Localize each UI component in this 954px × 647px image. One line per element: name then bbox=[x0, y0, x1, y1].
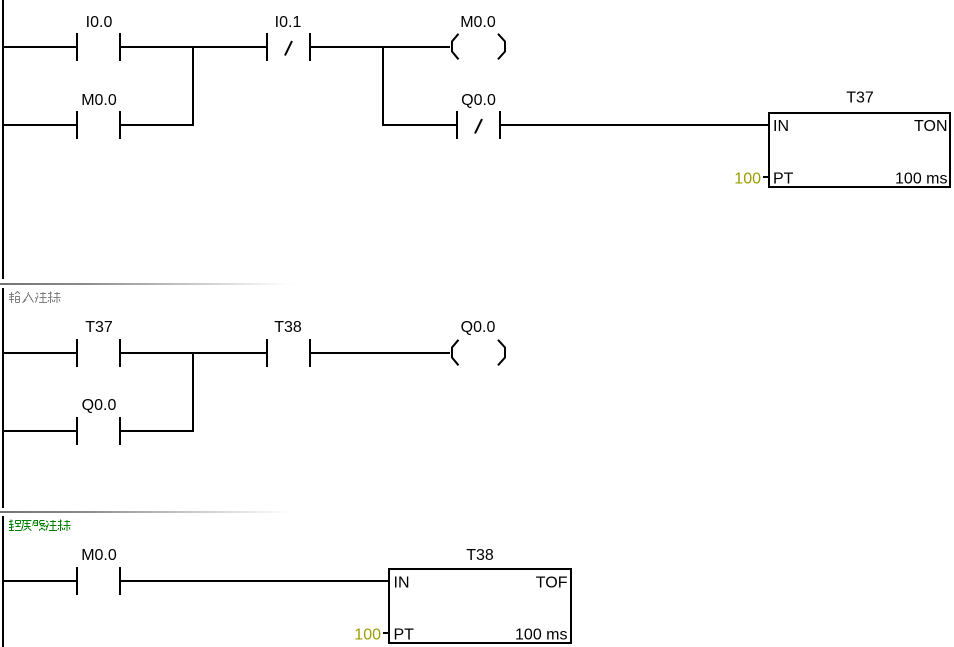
network separator 2 bbox=[0, 511, 295, 513]
wire M0.0 to timer T38 bbox=[121, 580, 389, 582]
wire Q0.0 hold to junction bbox=[121, 430, 194, 432]
svg-text:M0.0: M0.0 bbox=[81, 547, 117, 564]
svg-text:100 ms: 100 ms bbox=[515, 627, 567, 644]
junction branch to Q0.0 row bbox=[382, 46, 384, 126]
wire I0.0 to I0.1 bbox=[121, 46, 266, 48]
timer box T38 TOF bbox=[389, 569, 571, 643]
svg-text:TOF: TOF bbox=[536, 575, 568, 592]
contact Q0.0 hold bbox=[76, 417, 121, 445]
svg-text:IN: IN bbox=[394, 575, 410, 592]
svg-text:IN: IN bbox=[773, 118, 789, 135]
contact I0.1 (NC) bbox=[266, 33, 311, 61]
contact Q0.0 (NC) bbox=[456, 111, 501, 139]
wire I0.1 to coil M0.0 bbox=[311, 46, 450, 48]
svg-text:PT: PT bbox=[773, 171, 794, 188]
svg-text:T38: T38 bbox=[274, 319, 302, 336]
wire T38 to coil Q0.0 bbox=[311, 352, 450, 354]
contact M0.0 bbox=[76, 111, 121, 139]
contact T38 bbox=[266, 339, 311, 367]
svg-text:100: 100 bbox=[354, 627, 381, 644]
coil Q0.0 bbox=[452, 340, 505, 366]
svg-text:T38: T38 bbox=[466, 547, 494, 564]
svg-text:I0.1: I0.1 bbox=[275, 14, 302, 31]
wire junction to Q0.0 contact bbox=[382, 124, 456, 126]
left rail network 2 bbox=[2, 288, 4, 508]
wire rung1 rail to I0.0 bbox=[4, 46, 76, 48]
svg-text:Q0.0: Q0.0 bbox=[461, 319, 496, 336]
svg-text:I0.0: I0.0 bbox=[86, 14, 113, 31]
left rail network 3 bbox=[2, 516, 4, 647]
svg-text:TON: TON bbox=[914, 118, 947, 135]
tick PT input bbox=[763, 176, 769, 178]
wire rung2b rail to Q0.0 contact bbox=[4, 430, 76, 432]
coil M0.0 bbox=[452, 34, 505, 60]
svg-text:M0.0: M0.0 bbox=[460, 14, 496, 31]
contact M0.0 net3 bbox=[76, 567, 121, 595]
left rail network 1 bbox=[2, 0, 4, 279]
tick PT input T38 bbox=[383, 632, 389, 634]
timer box T37 TON bbox=[769, 113, 950, 187]
wire rung1b rail to M0.0 contact bbox=[4, 124, 76, 126]
network separator 1 bbox=[0, 283, 295, 285]
wire Q0.0 to timer T37 bbox=[501, 124, 769, 126]
svg-text:100 ms: 100 ms bbox=[895, 171, 947, 188]
wire M0.0 to junction bbox=[121, 124, 194, 126]
svg-text:T37: T37 bbox=[85, 319, 113, 336]
svg-text:100: 100 bbox=[734, 171, 761, 188]
wire T37 to T38 bbox=[121, 352, 266, 354]
wire rung2 rail to T37 bbox=[4, 352, 76, 354]
svg-text:Q0.0: Q0.0 bbox=[82, 397, 117, 414]
junction branch M0.0 parallel bbox=[192, 46, 194, 126]
wire rung3 rail to M0.0 bbox=[4, 580, 76, 582]
comment 输入注释 (gray) bbox=[9, 292, 61, 304]
contact I0.0 bbox=[76, 33, 121, 61]
comment 程序段注释 (green) bbox=[9, 520, 71, 532]
svg-text:Q0.0: Q0.0 bbox=[461, 92, 496, 109]
svg-text:M0.0: M0.0 bbox=[81, 92, 117, 109]
junction branch Q0.0 parallel bbox=[192, 352, 194, 432]
svg-text:PT: PT bbox=[394, 627, 415, 644]
svg-text:T37: T37 bbox=[846, 90, 874, 107]
contact T37 bbox=[76, 339, 121, 367]
